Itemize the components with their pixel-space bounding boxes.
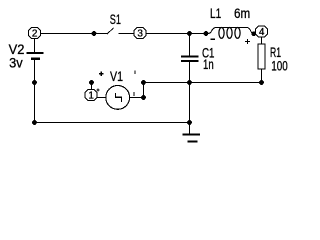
svg-text:3: 3 xyxy=(137,29,143,40)
svg-text:L1: L1 xyxy=(210,5,221,21)
svg-text:3v: 3v xyxy=(9,54,23,70)
plus mark V1 upper xyxy=(99,71,103,75)
junction top-left xyxy=(92,31,97,36)
minus tick V1 lower xyxy=(133,92,135,96)
minus tick V1 upper xyxy=(134,70,136,74)
junction mid rail left xyxy=(141,80,146,85)
plus mark node 1 xyxy=(96,88,99,91)
svg-text:S1: S1 xyxy=(110,11,121,27)
junction ground xyxy=(187,120,192,125)
svg-text:6m: 6m xyxy=(234,5,250,21)
minus mark L1 left xyxy=(211,38,216,40)
wire generator to right column xyxy=(130,97,144,99)
junction mid rail right xyxy=(259,80,264,85)
wire from node 3 to inductor xyxy=(146,33,207,35)
wire top rail from node 2 to switch xyxy=(40,33,107,35)
switch S1 blade xyxy=(107,28,114,34)
junction C1 mid xyxy=(187,80,192,85)
plus mark L1 right xyxy=(245,39,250,44)
junction L1 left xyxy=(204,31,209,36)
wire node 1 to generator xyxy=(97,97,106,99)
junction V1 plus stub xyxy=(89,80,94,85)
node 2 xyxy=(29,28,41,39)
wire switch right contact xyxy=(119,33,135,35)
junction C1 top xyxy=(187,31,192,36)
node 4 xyxy=(256,26,268,37)
junction bottom left xyxy=(32,120,37,125)
inductor L1 xyxy=(208,28,253,39)
capacitor C1 xyxy=(181,57,199,62)
svg-text:V1: V1 xyxy=(110,68,123,84)
svg-text:1n: 1n xyxy=(203,56,214,72)
wire battery down to bottom rail xyxy=(34,59,36,123)
wire C1 top xyxy=(189,34,191,57)
wire node 2 down to battery xyxy=(34,39,36,54)
wire stub to node 1 xyxy=(91,83,93,90)
ground xyxy=(183,123,201,142)
svg-text:1: 1 xyxy=(88,91,94,102)
svg-text:4: 4 xyxy=(259,27,265,38)
wire L1 to node 4 xyxy=(254,32,257,35)
generator V1 xyxy=(106,86,130,110)
wire V1 right column up xyxy=(143,83,145,98)
wire mid rail xyxy=(144,82,262,84)
node 3 xyxy=(134,28,146,39)
node 1 xyxy=(85,90,97,101)
battery V2 xyxy=(27,53,44,59)
wire R1 to mid rail xyxy=(261,69,263,83)
junction L1 right xyxy=(251,31,256,36)
junction V1 right lower xyxy=(141,95,146,100)
resistor R1 xyxy=(258,44,265,69)
wire node 4 to R1 xyxy=(261,37,263,44)
wire C1 bottom xyxy=(189,61,191,123)
wire bottom rail xyxy=(35,122,190,124)
svg-text:2: 2 xyxy=(32,29,38,40)
junction left wire xyxy=(32,80,37,85)
svg-text:100: 100 xyxy=(271,58,288,74)
